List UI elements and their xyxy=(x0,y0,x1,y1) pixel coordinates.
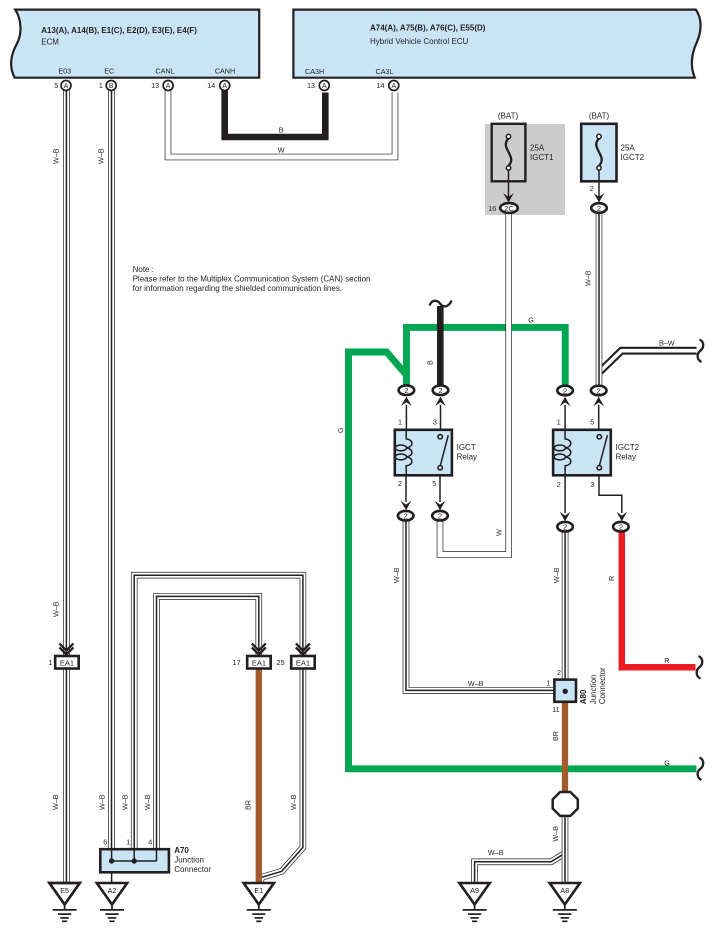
svg-text:CANL: CANL xyxy=(155,67,174,76)
svg-text:A74(A), A75(B), A76(C), E55(D): A74(A), A75(B), A76(C), E55(D) xyxy=(370,24,486,33)
svg-text:Connector: Connector xyxy=(174,865,211,874)
svg-text:6: 6 xyxy=(103,837,107,846)
pin 5-A E03 xyxy=(54,81,71,91)
svg-text:W–B: W–B xyxy=(584,270,593,286)
junction connector A80 xyxy=(546,667,607,714)
svg-text:14: 14 xyxy=(207,81,215,90)
note text xyxy=(133,265,371,293)
break symbol B-W xyxy=(698,340,704,362)
ground point A9 xyxy=(459,883,489,921)
connector 25-EA1 xyxy=(276,643,314,668)
fuse IGCT1 output line xyxy=(508,170,510,199)
svg-text:W–B: W–B xyxy=(51,601,60,617)
svg-text:W: W xyxy=(278,146,285,155)
svg-text:EA1: EA1 xyxy=(252,659,266,668)
svg-text:E03: E03 xyxy=(58,67,71,76)
svg-text:B–W: B–W xyxy=(659,339,675,348)
svg-text:Please refer to the Multiplex: Please refer to the Multiplex Communicat… xyxy=(133,275,371,284)
wire R relay IGCT2 pin 3 xyxy=(622,532,696,667)
svg-text:BR: BR xyxy=(551,731,560,741)
svg-text:G: G xyxy=(336,427,345,433)
arrow into 2C xyxy=(503,193,514,202)
wire B-W branch xyxy=(600,351,697,372)
svg-text:13: 13 xyxy=(307,81,315,90)
svg-text:EA1: EA1 xyxy=(60,659,74,668)
svg-text:W–B: W–B xyxy=(120,794,129,810)
connector 2 below relay IGCT pin 2 xyxy=(398,511,414,521)
svg-text:CANH: CANH xyxy=(215,67,235,76)
connector 16-2C xyxy=(488,203,518,213)
svg-text:Relay: Relay xyxy=(457,453,477,462)
pin 1-B EC xyxy=(99,81,116,91)
svg-text:5: 5 xyxy=(54,81,58,90)
svg-text:A80: A80 xyxy=(579,689,588,704)
wire B CANH to CA3H xyxy=(225,91,326,138)
pin 13-A CA3H xyxy=(307,81,329,91)
svg-text:A: A xyxy=(222,83,227,90)
svg-text:B: B xyxy=(109,83,114,90)
svg-text:5: 5 xyxy=(590,418,594,427)
wire A70 pin out to A2 xyxy=(111,872,113,883)
wire W-B relay IGCT pin 2 to A80 pin 1 xyxy=(406,521,553,690)
svg-text:A8: A8 xyxy=(560,886,569,895)
svg-text:EA1: EA1 xyxy=(296,659,310,668)
relay IGCT2 pin 3 jog xyxy=(599,475,622,513)
svg-text:2: 2 xyxy=(619,523,623,532)
svg-text:2: 2 xyxy=(404,512,408,521)
wire BR A80 pin 11 to noise filter xyxy=(562,701,568,793)
fuse IGCT2 output line and pin 2 xyxy=(598,170,600,199)
svg-text:17: 17 xyxy=(232,658,240,667)
pin 14-A CANH xyxy=(207,81,229,91)
relay IGCT2 pin 1 xyxy=(564,405,566,429)
ground point A2 xyxy=(97,883,127,921)
break symbol G right edge xyxy=(698,758,704,780)
svg-text:A: A xyxy=(391,83,396,90)
wire W-B E03 to EA1 and E5 xyxy=(65,91,67,884)
connector 17-EA1 xyxy=(232,643,270,668)
svg-text:2: 2 xyxy=(438,512,442,521)
svg-text:1: 1 xyxy=(398,418,402,427)
svg-text:1: 1 xyxy=(546,678,550,687)
connector 1-EA1 xyxy=(48,643,78,668)
IGCT1 fuse gray background xyxy=(485,124,565,215)
relay IGCT2 pin 2 xyxy=(564,475,566,513)
wire W-B octagon to A8 xyxy=(564,815,566,883)
pin 13-A CANL xyxy=(151,81,173,91)
svg-text:1: 1 xyxy=(99,81,103,90)
relay IGCT pin 1 xyxy=(405,405,407,429)
svg-text:4: 4 xyxy=(148,837,152,846)
svg-text:2: 2 xyxy=(563,523,567,532)
connector 2 below relay IGCT2 pin 2 xyxy=(557,522,573,532)
wire W-B relay IGCT2 pin 2 to A80 pin 2 xyxy=(564,532,566,678)
ground point E1 xyxy=(244,883,274,921)
svg-text:IGCT1: IGCT1 xyxy=(530,153,554,162)
svg-text:E5: E5 xyxy=(60,886,69,895)
svg-text:2: 2 xyxy=(404,386,408,395)
svg-text:A: A xyxy=(322,83,327,90)
wire BR EA1-17 to E1 xyxy=(256,668,262,883)
svg-text:EC: EC xyxy=(104,67,114,76)
svg-text:2: 2 xyxy=(438,386,442,395)
wire W-B fuse IGCT2 to relay IGCT2 xyxy=(598,214,600,385)
svg-text:for information regarding the: for information regarding the shielded c… xyxy=(133,284,342,293)
svg-text:CA3L: CA3L xyxy=(376,67,394,76)
junction connector A70 xyxy=(100,837,211,874)
connector 2 above relay IGCT pin 3 xyxy=(433,385,449,395)
svg-text:3: 3 xyxy=(590,480,594,489)
connector 2 above relay IGCT pin 1 xyxy=(399,385,415,395)
svg-text:W–B: W–B xyxy=(488,848,504,857)
svg-text:G: G xyxy=(664,758,670,767)
svg-text:CA3H: CA3H xyxy=(305,67,324,76)
svg-text:A: A xyxy=(64,83,69,90)
svg-text:25A: 25A xyxy=(530,144,545,153)
svg-text:11: 11 xyxy=(552,705,559,714)
svg-text:Relay: Relay xyxy=(616,453,636,462)
wire G net (green) xyxy=(349,327,697,768)
svg-text:Junction: Junction xyxy=(174,856,204,865)
svg-text:W–B: W–B xyxy=(551,826,560,842)
svg-text:R: R xyxy=(607,576,616,581)
connector 2 below relay IGCT pin 5 xyxy=(432,511,448,521)
fuse IGCT2 25A xyxy=(581,112,644,182)
svg-text:ECM: ECM xyxy=(41,37,59,46)
svg-text:2: 2 xyxy=(563,386,567,395)
relay IGCT pin 3 xyxy=(440,405,442,429)
svg-text:W–B: W–B xyxy=(552,567,561,583)
wire B to relay IGCT pin 3 xyxy=(437,306,444,385)
connector 2 above relay IGCT2 pin 5 xyxy=(591,386,607,396)
svg-text:W–B: W–B xyxy=(468,679,484,688)
svg-text:2: 2 xyxy=(597,386,601,395)
svg-text:W–B: W–B xyxy=(143,794,152,810)
svg-text:W–B: W–B xyxy=(97,148,106,164)
connector 2 below IGCT2 xyxy=(591,203,607,213)
svg-text:Note :: Note : xyxy=(133,265,154,274)
wire W-B EA1-25 to A70 pin 1 xyxy=(134,575,303,848)
relay IGCT pin 2 xyxy=(405,475,407,502)
break symbol B xyxy=(430,301,452,307)
svg-text:2: 2 xyxy=(557,668,561,677)
fuse IGCT1 25A xyxy=(492,112,554,182)
svg-text:W–B: W–B xyxy=(392,567,401,583)
svg-text:BR: BR xyxy=(244,800,253,810)
svg-text:A13(A), A14(B), E1(C), E2(D),: A13(A), A14(B), E1(C), E2(D), E3(E), E4(… xyxy=(41,26,197,35)
svg-text:B: B xyxy=(279,126,284,135)
svg-text:W–B: W–B xyxy=(98,794,107,810)
svg-text:IGCT2: IGCT2 xyxy=(621,153,645,162)
svg-text:25A: 25A xyxy=(621,144,636,153)
arrow into 2 xyxy=(594,193,605,202)
ground point A8 xyxy=(550,883,580,921)
svg-text:Hybrid Vehicle Control ECU: Hybrid Vehicle Control ECU xyxy=(370,37,468,46)
svg-text:2: 2 xyxy=(590,184,594,193)
wire W-B EA1-25 to E1 xyxy=(261,668,303,883)
svg-text:A70: A70 xyxy=(174,846,189,855)
svg-text:1: 1 xyxy=(48,658,52,667)
pin 14-A CA3L xyxy=(377,81,399,91)
svg-text:Junction: Junction xyxy=(589,675,598,705)
svg-text:W–B: W–B xyxy=(51,794,60,810)
svg-text:Connector: Connector xyxy=(598,667,607,704)
wire W-B EC to A70 pin 6 xyxy=(111,91,113,849)
connector 2 above relay IGCT2 pin 1 xyxy=(557,386,573,396)
svg-text:W–B: W–B xyxy=(289,794,298,810)
svg-text:A: A xyxy=(166,83,171,90)
svg-text:2: 2 xyxy=(597,204,601,213)
connector 2 below relay IGCT2 pin 3 xyxy=(613,522,629,532)
svg-text:IGCT2: IGCT2 xyxy=(616,443,640,452)
wire W-B branch to A9 xyxy=(475,853,565,883)
svg-text:A9: A9 xyxy=(470,886,479,895)
relay IGCT2 pin 5 xyxy=(598,405,600,429)
relay IGCT2 box xyxy=(553,430,640,476)
svg-text:IGCT: IGCT xyxy=(457,443,476,452)
svg-text:14: 14 xyxy=(377,81,385,90)
ECU ECM box xyxy=(11,10,259,78)
svg-text:(BAT): (BAT) xyxy=(589,112,610,121)
svg-text:25: 25 xyxy=(276,658,284,667)
wire W fuse IGCT1 to relay IGCT pin 5 xyxy=(440,214,509,555)
svg-text:13: 13 xyxy=(151,81,159,90)
svg-text:2C: 2C xyxy=(504,204,514,213)
svg-text:2: 2 xyxy=(398,479,402,488)
svg-text:G: G xyxy=(528,316,534,325)
svg-text:1: 1 xyxy=(126,837,130,846)
svg-text:(BAT): (BAT) xyxy=(498,112,519,121)
svg-text:5: 5 xyxy=(432,479,436,488)
ECU Hybrid Vehicle Control box xyxy=(293,10,700,78)
svg-text:16: 16 xyxy=(488,204,496,213)
svg-text:R: R xyxy=(664,656,669,665)
svg-text:A2: A2 xyxy=(108,886,117,895)
wire W CANL to CA3L xyxy=(168,91,395,158)
svg-text:B: B xyxy=(425,360,434,365)
svg-text:W: W xyxy=(494,529,503,536)
relay IGCT pin 5 xyxy=(439,475,441,502)
svg-text:W–B: W–B xyxy=(51,148,60,164)
wire W-B EA1-17 to A70 pin 4 xyxy=(157,596,259,848)
relay IGCT box xyxy=(395,430,477,476)
svg-text:1: 1 xyxy=(557,418,561,427)
ground point E5 xyxy=(49,883,79,921)
svg-text:2: 2 xyxy=(557,480,561,489)
noise filter octagon xyxy=(553,792,578,816)
svg-text:E1: E1 xyxy=(254,886,263,895)
svg-text:3: 3 xyxy=(433,418,437,427)
break symbol R xyxy=(697,656,703,678)
